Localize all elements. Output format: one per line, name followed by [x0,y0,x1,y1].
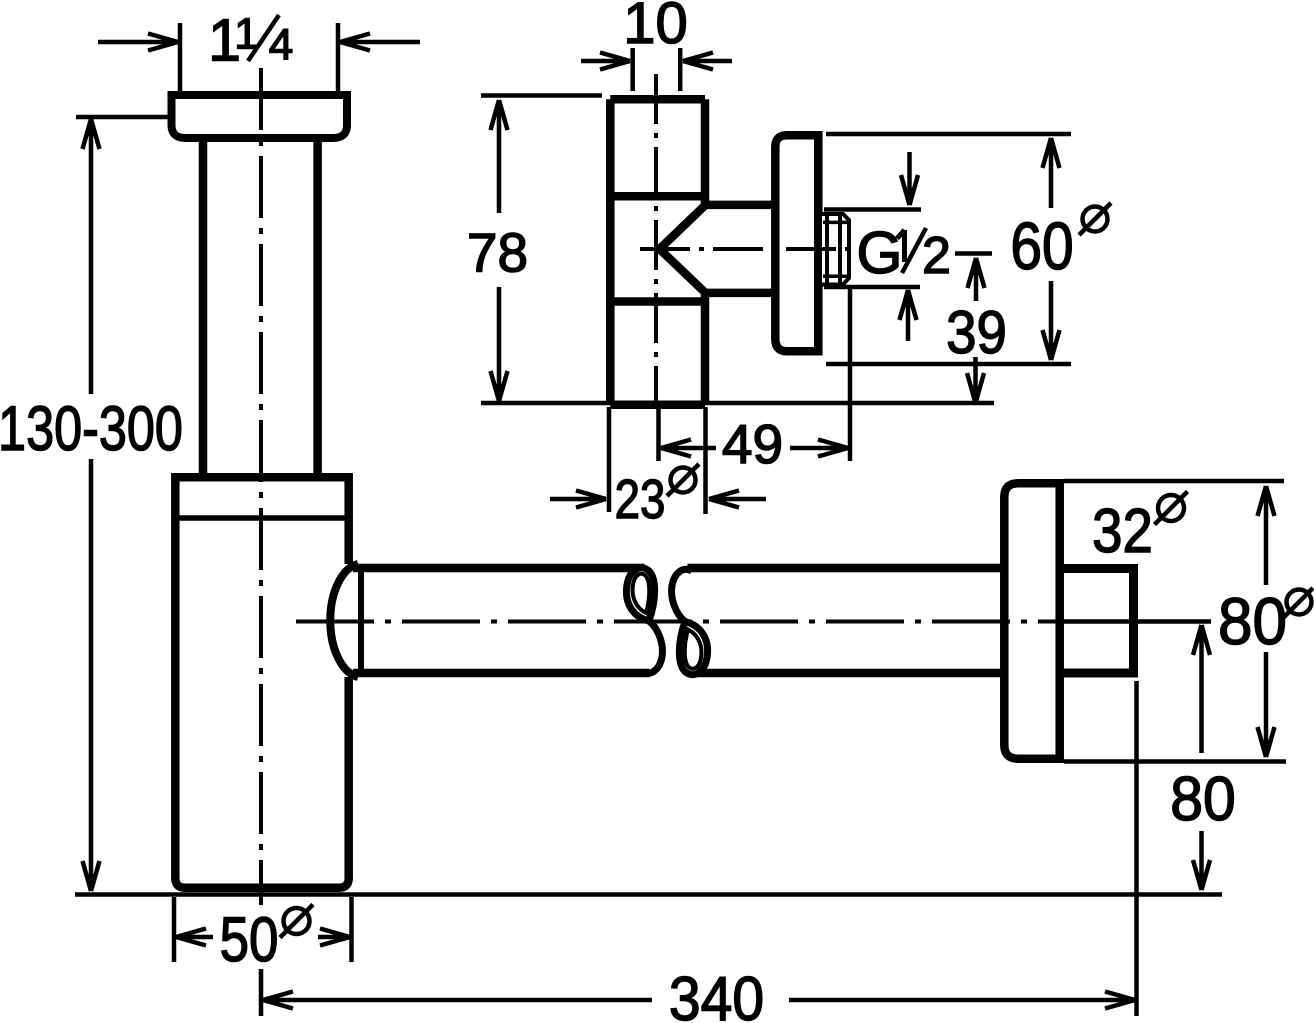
svg-text:39: 39 [946,300,1007,367]
centerline extension right [1060,619,1211,624]
riser pipe walls [203,140,318,475]
tee divider lower [610,297,705,306]
svg-text:23: 23 [615,468,666,530]
svg-text:80: 80 [1218,584,1287,658]
centerline tee vertical [654,74,658,404]
bottle cap inner line [176,515,348,521]
label 50 dia symbol [280,905,313,938]
dim 78 line and arrows [491,100,508,401]
svg-text:2: 2 [922,227,951,285]
dim 1-1/4 extension lines [180,23,338,91]
wall nut [1064,569,1134,674]
dim 130-300 top extension [76,115,171,120]
pipe break left inner [633,574,650,613]
svg-text:340: 340 [669,964,764,1023]
pipe break right inner [685,630,702,669]
dim 1-1/4 right arrow [340,34,420,51]
dim 23dia arrows [550,491,766,508]
dim 39 tick [955,251,992,256]
centerline outlet pipe horizontal [296,620,1060,624]
dim thread top extension and arrow [824,152,921,210]
svg-text:G: G [857,220,903,286]
dim 1-1/4 left arrow [98,34,178,51]
dim 340 extension right [1134,681,1139,1016]
dim 10 arrows [581,53,732,70]
dim 80 arrows [1193,625,1210,890]
dim thread bottom extension and arrow [824,287,920,341]
ground baseline [75,892,1222,897]
dim 10 extension lines [633,48,681,91]
svg-text:49: 49 [722,413,783,475]
svg-text:80: 80 [1170,764,1236,834]
tee outlet stub [660,205,776,293]
outlet pipe right segment [688,568,1001,673]
svg-text:4: 4 [269,21,293,70]
dim 80dia line and arrows [1258,486,1275,757]
dim 60dia line and arrows [1043,138,1060,360]
dim 50 arrows [176,929,350,946]
tee body fill [606,95,709,409]
dim 340 line and arrows [263,992,1135,1009]
label 80 dia symbol [1283,588,1313,618]
dim 49 arrows [661,440,848,457]
bottle body [175,477,348,887]
dim 340 extension left [259,969,264,1016]
label 23 dia symbol [667,464,699,496]
pipe break left loop [626,568,654,621]
label 1-1/4 [208,8,293,74]
outlet pipe left segment [353,568,650,673]
svg-text:60: 60 [1010,210,1073,284]
pipe break right loop [679,622,707,675]
tee body outline [610,99,705,405]
dim 78 top extension [481,93,602,98]
svg-text:130-300: 130-300 [0,394,183,465]
ball joint junction line [358,568,364,675]
threaded stub G1/2 [822,214,849,285]
dim 80dia extension lines [1064,481,1286,762]
centerline tee stub horizontal [640,247,852,251]
tee baseline [481,401,994,406]
top nut cap [172,95,348,138]
label 60 dia symbol [1079,203,1111,235]
wall flange [1004,483,1059,758]
svg-text:50: 50 [220,905,279,975]
dim 50 extension lines [174,897,352,962]
pipe break left tail [642,621,662,673]
tee divider upper [610,192,705,201]
dim 23dia extension lines [609,407,706,514]
label 32 dia symbol [1155,492,1188,525]
centerline bottle vertical [259,68,263,905]
dim 49 extension lines [659,288,851,461]
svg-text:10: 10 [623,0,688,56]
label G1/2 [857,220,951,286]
svg-text:78: 78 [467,222,528,284]
pipe break right tail [672,569,692,621]
dim 60dia extension lines [826,134,1071,364]
dim 130-300 line and arrows [83,119,100,891]
tee flange [775,135,818,351]
dim 39 arrows [967,258,985,403]
svg-text:32: 32 [1092,497,1153,566]
outlet ball joint arc [330,564,358,677]
